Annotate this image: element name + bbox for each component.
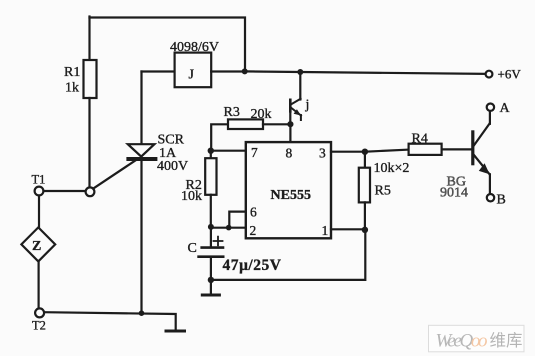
- svg-text:Z: Z: [32, 239, 41, 254]
- svg-text:T1: T1: [32, 173, 46, 187]
- svg-text:NE555: NE555: [271, 188, 311, 203]
- svg-text:2: 2: [250, 223, 257, 238]
- svg-text:8: 8: [286, 146, 293, 161]
- svg-text:J: J: [189, 68, 195, 83]
- svg-text:1k: 1k: [65, 81, 79, 96]
- svg-text:R3: R3: [224, 105, 240, 120]
- svg-text:R4: R4: [412, 132, 428, 147]
- svg-text:+6V: +6V: [498, 67, 522, 82]
- svg-text:R1: R1: [64, 65, 80, 80]
- svg-text:4098/6V: 4098/6V: [170, 40, 219, 55]
- svg-text:j: j: [305, 98, 310, 113]
- svg-text:10k: 10k: [181, 189, 202, 204]
- svg-text:C: C: [188, 241, 197, 256]
- svg-text:20k: 20k: [251, 107, 272, 122]
- svg-text:6: 6: [250, 205, 257, 220]
- svg-text:400V: 400V: [157, 159, 188, 174]
- svg-text:10k×2: 10k×2: [374, 161, 410, 176]
- svg-text:T2: T2: [32, 319, 46, 333]
- svg-text:7: 7: [251, 145, 258, 160]
- svg-text:9014: 9014: [440, 186, 468, 201]
- svg-text:R5: R5: [375, 184, 391, 199]
- svg-text:3: 3: [319, 146, 326, 161]
- svg-text:B: B: [497, 193, 506, 208]
- svg-text:47μ/25V: 47μ/25V: [223, 257, 282, 274]
- svg-text:维库: 维库: [490, 331, 523, 350]
- svg-text:1: 1: [322, 223, 329, 238]
- svg-text:WeeQoo: WeeQoo: [436, 331, 488, 352]
- svg-text:A: A: [500, 101, 511, 116]
